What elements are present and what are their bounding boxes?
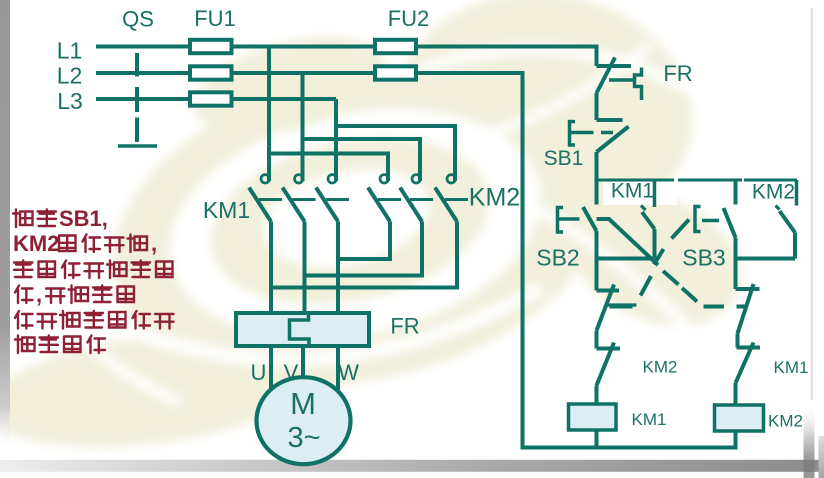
coil KM2 — [715, 405, 764, 431]
KM1 main contact a — [249, 47, 282, 222]
wire to KM2 coil — [734, 383, 738, 405]
KM1 aux label box — [603, 182, 677, 205]
svg-text:FU1: FU1 — [194, 6, 236, 31]
wire L3 to KM2 contact (top branch) — [336, 99, 455, 181]
wire L2 — [96, 71, 523, 75]
svg-text:SB3: SB3 — [682, 245, 725, 271]
pushbutton SB2 (NO start fwd) — [558, 180, 597, 232]
wire FR to motor W — [336, 346, 340, 400]
wire motor phase V drop — [303, 222, 307, 314]
KM2 main contact c — [435, 175, 468, 222]
wire KM1a-KM2c junction — [271, 222, 457, 288]
wire motor phase U drop — [269, 222, 273, 314]
far right strip — [819, 436, 824, 478]
annotation text line 4 — [15, 286, 33, 304]
node bar left branch — [597, 257, 655, 261]
wire SB1 to junction bar — [595, 152, 599, 182]
wire FR to SB1 — [595, 93, 599, 120]
wire KM1c-KM2a junction — [338, 222, 390, 260]
wire L2 to KM2 contact (middle branch) — [303, 73, 421, 181]
linkage SB3 to SB3-NC (dashed) — [610, 220, 690, 307]
wire control bottom — [521, 446, 738, 450]
wire SB3 down — [734, 238, 738, 290]
svg-text:3~: 3~ — [287, 422, 320, 454]
svg-text:U: U — [251, 360, 267, 385]
svg-text:,: , — [36, 282, 42, 307]
thermal overload FR box — [236, 313, 369, 346]
fuse FU2 element 2 — [375, 66, 416, 79]
pushbutton SB1 (NC stop) — [570, 120, 629, 152]
FR heater element — [290, 313, 310, 346]
svg-text:,: , — [151, 231, 157, 256]
junction bar segment 2 — [678, 179, 742, 182]
wire FR to motor U — [269, 346, 273, 399]
svg-text:L3: L3 — [57, 88, 83, 114]
wire to KM1 coil — [595, 386, 599, 405]
svg-text:M: M — [290, 386, 316, 421]
coil KM1 — [569, 404, 617, 430]
wire KM1 coil to bottom — [595, 430, 599, 450]
svg-text:SB1,: SB1, — [59, 206, 108, 231]
fuse FU2 element 1 — [375, 40, 416, 53]
fuse FU1 element 1 — [190, 40, 232, 53]
svg-text:KM1: KM1 — [611, 180, 654, 203]
right shadow bar — [804, 402, 815, 478]
fuse FU1 element 3 — [190, 92, 232, 105]
KM2 aux label box — [744, 182, 802, 204]
svg-text:SB2: SB2 — [536, 245, 579, 271]
svg-text:L1: L1 — [57, 38, 83, 64]
wire KM2 coil to bottom — [734, 431, 738, 450]
left page shadow bar — [0, 0, 10, 452]
wire L1 to KM2 contact (bottom branch) — [269, 47, 388, 182]
contact KM2 aux NC (interlock) — [597, 343, 621, 386]
contact KM1 aux NC (interlock) — [736, 343, 761, 384]
svg-text:KM2: KM2 — [768, 412, 803, 431]
svg-text:FU2: FU2 — [388, 6, 430, 31]
svg-text:KM2: KM2 — [752, 181, 795, 204]
shadow intersection — [804, 460, 815, 472]
wire L1 — [96, 45, 597, 49]
svg-text:KM1: KM1 — [203, 197, 250, 223]
svg-text:SB1: SB1 — [544, 147, 584, 170]
wire SB2 down — [595, 231, 599, 291]
junction bar segment 1 — [597, 179, 675, 182]
svg-text:KM2: KM2 — [13, 231, 59, 256]
contact SB3 NC (button interlock, left branch) — [597, 285, 637, 331]
annotation text line 5 — [15, 311, 174, 329]
FR NC contact — [597, 58, 642, 101]
svg-text:KM1: KM1 — [774, 358, 809, 377]
bottom shadow bar — [0, 460, 824, 472]
fuse FU1 element 2 — [190, 66, 232, 79]
wire L3 — [96, 97, 336, 101]
pushbutton SB3 (NO start rev) — [695, 180, 736, 238]
wire L1 down to FR contact — [595, 45, 599, 67]
motor M 3~ — [257, 377, 351, 464]
contact KM2 aux NO (self-lock) — [776, 180, 797, 259]
svg-text:QS: QS — [122, 7, 154, 32]
node bar right branch — [736, 257, 796, 261]
KM1 main contact b — [283, 73, 316, 222]
contact KM1 aux NO (self-lock) — [641, 180, 655, 259]
KM2 main contact a — [368, 175, 401, 222]
svg-text:FR: FR — [663, 61, 692, 86]
wire motor phase W drop — [336, 222, 340, 314]
svg-text:KM2: KM2 — [643, 358, 678, 377]
wire FR to motor V — [301, 346, 305, 384]
KM1 main contact c — [316, 99, 349, 222]
junction bar segment 3 — [744, 179, 797, 182]
wire KM1b-KM2b junction — [305, 222, 423, 276]
KM2 main contact b — [400, 175, 433, 222]
wire between NC contacts left — [595, 331, 599, 349]
annotation text line 3 — [14, 261, 173, 279]
svg-text:KM1: KM1 — [632, 410, 667, 429]
contact SB2 NC (button interlock, right branch) — [736, 284, 760, 334]
linkage SB2 to SB2-NC (dashed) — [597, 219, 748, 307]
annotation text line 6 — [15, 336, 105, 354]
wire L2 rail down — [521, 71, 525, 450]
slide right edge line — [811, 8, 814, 400]
switch QS — [118, 53, 157, 146]
svg-text:W: W — [338, 360, 359, 385]
annotation text line 1 — [13, 210, 56, 228]
wire between NC contacts right — [736, 334, 740, 348]
svg-text:KM2: KM2 — [469, 184, 520, 212]
svg-text:L2: L2 — [57, 63, 83, 89]
svg-text:FR: FR — [390, 314, 419, 339]
